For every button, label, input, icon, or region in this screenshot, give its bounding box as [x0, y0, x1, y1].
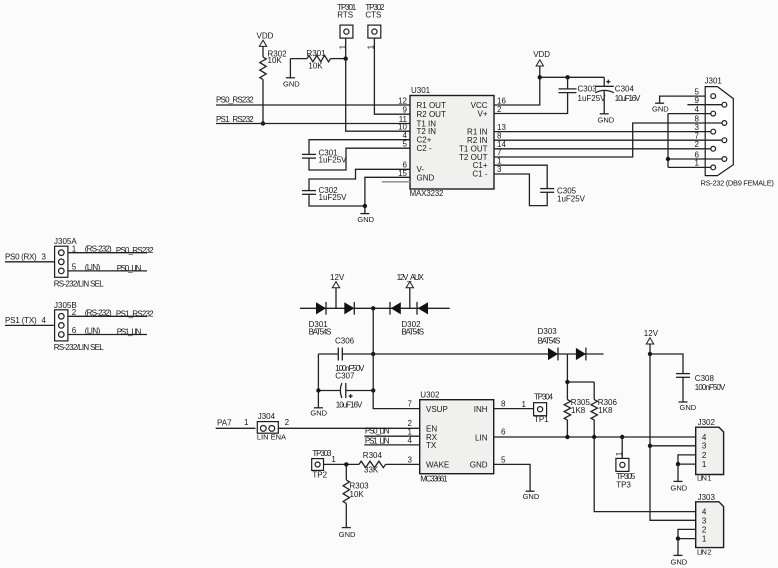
- svg-text:3: 3: [702, 516, 707, 525]
- svg-text:5: 5: [501, 455, 506, 464]
- svg-text:TP304: TP304: [534, 393, 554, 402]
- ground GND (U302): [523, 491, 540, 501]
- resistor R305: [564, 400, 570, 420]
- svg-text:C303: C303: [578, 85, 598, 94]
- svg-text:9: 9: [403, 106, 408, 115]
- svg-text:J304: J304: [258, 412, 276, 421]
- svg-text:C1 -: C1 -: [472, 170, 487, 179]
- resistor R301: [307, 55, 331, 61]
- IC U302 MC33661: [420, 400, 494, 474]
- IC U301 MAX3232: [410, 96, 494, 190]
- svg-text:TX: TX: [426, 441, 437, 450]
- wire PS1_LIN to U302 TX: [364, 444, 419, 446]
- svg-text:PS1_LIN: PS1_LIN: [117, 328, 142, 337]
- ground GND (C308): [679, 402, 697, 412]
- svg-text:(LIN): (LIN): [85, 263, 101, 272]
- svg-text:6: 6: [72, 326, 77, 335]
- svg-text:10K: 10K: [350, 490, 365, 499]
- svg-text:GND: GND: [417, 174, 435, 183]
- J301 pin circle 5: [711, 94, 716, 99]
- J301 pin circle 2: [711, 146, 716, 151]
- junction C303 branch: [565, 75, 569, 79]
- svg-text:1: 1: [72, 244, 77, 253]
- junction C306 row: [371, 352, 375, 356]
- wire J301 pin 1: [668, 166, 711, 168]
- svg-text:1uF25V: 1uF25V: [319, 193, 348, 202]
- wire J301 pin 5 to GND: [660, 96, 706, 103]
- wire C306 row to D303: [373, 353, 603, 355]
- wire VDD to R302: [262, 46, 264, 57]
- capacitor C304 (polarized): [595, 77, 614, 114]
- capacitor C303: [559, 77, 577, 92]
- power 12V_AUX (D302 tap): [397, 273, 425, 308]
- svg-text:(RS-232): (RS-232): [85, 308, 112, 317]
- wire U301 pin 6 (V-) to C302: [309, 169, 410, 190]
- test point TP301: [337, 3, 357, 49]
- wire C305 to U301 pin 3 (C1-): [494, 174, 547, 206]
- svg-text:1: 1: [522, 400, 527, 409]
- junction D301/D302 rail: [371, 306, 375, 310]
- svg-text:D303: D303: [538, 327, 558, 336]
- junction C307 row right: [371, 388, 375, 392]
- svg-text:1uF25V: 1uF25V: [578, 94, 607, 103]
- wire J304 to U302 EN: [278, 427, 419, 429]
- svg-text:3: 3: [408, 455, 413, 464]
- junction J302 pin 1: [676, 462, 680, 466]
- svg-text:4: 4: [408, 436, 413, 445]
- wire U301 pin 14 (T1 OUT) to J301 pin 2: [494, 148, 711, 150]
- junction C302/U301 GND: [363, 204, 367, 208]
- svg-text:2: 2: [285, 418, 290, 427]
- wire R305 to LIN row: [566, 420, 568, 437]
- svg-text:2: 2: [72, 308, 77, 317]
- wire J305B pin 2 (RS-232 select): [68, 315, 147, 317]
- svg-text:GND: GND: [671, 484, 688, 493]
- diode D303 (dual BAT54S): [548, 348, 586, 361]
- svg-text:BAT54S: BAT54S: [538, 336, 561, 345]
- svg-text:PS0_LIN: PS0_LIN: [117, 264, 142, 273]
- svg-text:(RS-232): (RS-232): [85, 245, 112, 254]
- test point TP303: [312, 449, 332, 479]
- svg-text:12: 12: [398, 96, 407, 105]
- svg-text:1: 1: [695, 159, 700, 168]
- svg-text:C304: C304: [615, 85, 635, 94]
- svg-text:12V_AUX: 12V_AUX: [397, 273, 425, 282]
- wire J302 pin 3: [650, 445, 696, 447]
- svg-text:C306: C306: [335, 336, 355, 345]
- svg-text:C307: C307: [335, 371, 355, 380]
- wire PS1 to J305B: [5, 324, 55, 326]
- svg-text:5: 5: [72, 263, 77, 272]
- wire J305A pin 5 (LIN select): [68, 270, 147, 272]
- svg-text:VDD: VDD: [257, 31, 274, 40]
- svg-text:GND: GND: [598, 115, 615, 124]
- svg-text:(LIN): (LIN): [85, 327, 101, 336]
- svg-text:PS1_RS232: PS1_RS232: [216, 115, 254, 124]
- capacitor C305: [540, 189, 554, 193]
- wire C302 to GND junction: [309, 194, 365, 206]
- svg-text:GND: GND: [671, 558, 688, 567]
- connector J304: [257, 412, 286, 442]
- wire TP303 to R304: [324, 463, 360, 465]
- wire U301 pin 1 (C1+) to C305: [494, 165, 547, 188]
- wire J301 pin 9 stub: [687, 104, 722, 106]
- svg-text:LIN: LIN: [257, 433, 269, 442]
- svg-text:PS1 (TX): PS1 (TX): [5, 316, 37, 325]
- junction VDD rail: [538, 75, 542, 79]
- junction C307 left: [316, 388, 320, 392]
- svg-text:6: 6: [501, 428, 506, 437]
- svg-text:MAX3232: MAX3232: [410, 189, 445, 198]
- svg-text:PS1_LIN: PS1_LIN: [365, 437, 390, 446]
- svg-text:8: 8: [501, 400, 506, 409]
- svg-text:9: 9: [695, 96, 700, 105]
- wire U302 LIN to J302 pin 4: [494, 436, 696, 438]
- J301 pin circle 4: [711, 111, 716, 116]
- J301 pin circle 8: [722, 121, 727, 126]
- resistor R304: [359, 461, 386, 467]
- svg-text:U301: U301: [411, 86, 431, 95]
- resistor R306: [591, 400, 597, 420]
- wire R302 to PS1_RS232: [262, 80, 264, 124]
- svg-text:GND: GND: [283, 80, 300, 89]
- svg-text:ENA: ENA: [271, 433, 286, 442]
- svg-text:GND: GND: [652, 104, 669, 113]
- connector J303: [696, 493, 724, 556]
- svg-text:TP3: TP3: [616, 481, 631, 490]
- svg-text:R1 OUT: R1 OUT: [417, 101, 446, 110]
- svg-text:R2 OUT: R2 OUT: [417, 110, 446, 119]
- svg-text:V+: V+: [477, 109, 487, 118]
- svg-text:10K: 10K: [308, 62, 323, 71]
- diode D302 (dual BAT54S reversed): [390, 302, 428, 315]
- J301 pin circle 3: [711, 129, 716, 134]
- svg-text:33K: 33K: [364, 465, 379, 474]
- svg-text:GND: GND: [470, 461, 488, 470]
- power VDD (R302 pull-up): [257, 31, 274, 46]
- junction R301/TP301: [344, 56, 348, 60]
- svg-text:RS-232/LIN SEL: RS-232/LIN SEL: [54, 343, 105, 352]
- svg-text:J302: J302: [698, 418, 716, 427]
- svg-text:7: 7: [408, 400, 413, 409]
- wire U301 pin 7 (T2 OUT) to J301 pin 8: [494, 123, 722, 157]
- resistor R302: [260, 57, 266, 80]
- ground GND (J302): [671, 464, 688, 493]
- svg-text:2: 2: [497, 105, 502, 114]
- capacitor C307 (polarized): [318, 383, 373, 398]
- wire TP301 to U301 pin 10 (T2 IN): [346, 38, 410, 131]
- svg-text:2: 2: [695, 140, 700, 149]
- wire PS0 to J305A: [5, 261, 55, 263]
- svg-text:LIN: LIN: [475, 433, 488, 442]
- junction R305 top: [565, 380, 569, 384]
- wire rail to C306 row: [372, 308, 374, 354]
- capacitor C301: [302, 154, 316, 158]
- wire PS1_RS232 to U301 pin 11: [216, 123, 410, 125]
- ground GND (C304): [598, 114, 615, 125]
- wire GND to R301: [290, 58, 307, 60]
- svg-text:1: 1: [702, 460, 707, 469]
- svg-text:U302: U302: [420, 390, 440, 399]
- wire 12V branch to C308: [650, 354, 683, 374]
- wire R301 to TP301: [331, 58, 346, 60]
- wire PS0_LIN to U302 RX: [364, 435, 419, 437]
- wire U301 pin 4 (C2+) to C301: [309, 140, 410, 155]
- connector J305B: [54, 301, 77, 341]
- wire VDD to U301 pin 16 (VCC): [494, 66, 540, 105]
- ground GND (U301/C302): [357, 206, 374, 224]
- wire C306/C307 left leg: [317, 354, 319, 391]
- svg-text:TP303: TP303: [312, 449, 332, 458]
- svg-text:MC33661: MC33661: [420, 475, 448, 484]
- svg-text:PS0_RS232: PS0_RS232: [216, 95, 254, 104]
- connector J302: [696, 418, 724, 482]
- junction TP305/LIN: [620, 435, 624, 439]
- wire J303 pins 2/1 tie: [678, 529, 696, 538]
- junction 12V/C308: [648, 352, 652, 356]
- junction J302 pin 3 branch: [648, 444, 652, 448]
- wire TP302 to U301 pin 9 (R2 OUT): [374, 38, 410, 114]
- svg-text:5: 5: [403, 140, 408, 149]
- svg-text:PS0_RS232: PS0_RS232: [116, 246, 154, 255]
- svg-text:VDD: VDD: [533, 50, 550, 59]
- wire J301 pins 4/6/1 tie: [667, 114, 669, 168]
- wire C301 to U301 pin 5 (C2-): [309, 148, 410, 170]
- test point TP302: [365, 3, 385, 49]
- wire J305B pin 6 (LIN select): [68, 334, 147, 336]
- svg-text:12V: 12V: [644, 329, 659, 338]
- capacitor C302: [302, 191, 316, 195]
- test point TP305: [616, 458, 636, 489]
- svg-text:1uF25V: 1uF25V: [319, 156, 348, 165]
- svg-text:INH: INH: [474, 405, 488, 414]
- wire LIN to J303 pin 4: [594, 437, 696, 512]
- wire rail to U302 VSUP: [373, 391, 420, 409]
- capacitor C306: [318, 348, 373, 361]
- svg-text:1uF25V: 1uF25V: [557, 195, 586, 204]
- svg-text:GND: GND: [357, 215, 374, 224]
- wire D303 tap to R305/R306: [567, 354, 594, 400]
- svg-text:100nF50V: 100nF50V: [695, 383, 726, 392]
- svg-text:CTS: CTS: [365, 10, 381, 19]
- diode D301 (dual BAT54S): [316, 302, 354, 315]
- svg-text:4: 4: [702, 508, 707, 517]
- ground GND (J301 pin 5): [652, 103, 669, 113]
- svg-text:VSUP: VSUP: [426, 405, 448, 414]
- svg-text:LIN 1: LIN 1: [697, 473, 712, 482]
- svg-text:RS-232/LIN SEL: RS-232/LIN SEL: [54, 279, 105, 288]
- svg-text:10uF16V: 10uF16V: [615, 94, 641, 103]
- wire J305A pin 1 (RS-232 select): [68, 252, 147, 254]
- wire J301 pin 4: [668, 113, 711, 115]
- junction J303 pin 1: [676, 536, 680, 540]
- wire C303 to U301 pin 2 (V+): [494, 93, 568, 114]
- svg-text:4: 4: [695, 105, 700, 114]
- wire J301 pin 6: [668, 158, 722, 160]
- J301 pin circle 7: [722, 138, 727, 143]
- ground GND (R301): [283, 59, 300, 89]
- junction J301 pin 6 tie: [666, 157, 670, 161]
- wire U302 GND to ground: [494, 464, 530, 491]
- svg-text:GND: GND: [680, 403, 697, 412]
- J301 pin circle 1: [711, 165, 716, 170]
- svg-text:TP305: TP305: [616, 472, 636, 481]
- svg-text:RTS: RTS: [337, 10, 353, 19]
- svg-text:TP1: TP1: [534, 415, 549, 424]
- test point TP304: [534, 393, 554, 424]
- power 12V (LIN bus): [644, 329, 659, 354]
- wire R304 to U302 WAKE: [386, 463, 420, 465]
- svg-text:4: 4: [702, 433, 707, 442]
- svg-text:1K8: 1K8: [598, 406, 613, 415]
- svg-text:TP2: TP2: [312, 470, 327, 479]
- svg-text:1: 1: [615, 451, 624, 456]
- wire PS0_RS232 to U301 pin 12: [216, 104, 410, 106]
- svg-text:1K8: 1K8: [571, 406, 586, 415]
- wire PA7 to J304: [216, 427, 256, 429]
- wire U301 pin 8 (R2 IN) to J301 pin 7: [494, 139, 722, 141]
- ground GND (J303): [671, 539, 688, 567]
- junction R306/LIN: [592, 435, 596, 439]
- junction R305/LIN: [565, 435, 569, 439]
- svg-text:WAKE: WAKE: [426, 461, 449, 470]
- svg-text:PS0 (RX): PS0 (RX): [5, 252, 37, 261]
- svg-text:C2 -: C2 -: [417, 144, 432, 153]
- ground GND (R303): [339, 504, 356, 539]
- wire U301 pin 15 (GND) to ground: [365, 177, 410, 206]
- svg-text:PA7: PA7: [217, 418, 232, 427]
- ground GND (C306/C307): [310, 391, 327, 418]
- svg-text:GND: GND: [523, 492, 540, 501]
- svg-text:LIN 2: LIN 2: [697, 547, 712, 556]
- svg-text:1: 1: [702, 535, 707, 544]
- svg-text:12V: 12V: [330, 273, 345, 282]
- junction TP303/R303/R304: [344, 462, 348, 466]
- svg-text:1: 1: [244, 418, 249, 427]
- power VDD (U301 VCC): [533, 50, 550, 66]
- svg-text:10K: 10K: [268, 56, 283, 65]
- svg-text:2: 2: [702, 525, 707, 534]
- artifact line under U301 pin 15: [382, 181, 410, 183]
- svg-text:J303: J303: [698, 493, 716, 502]
- svg-text:R304: R304: [363, 451, 383, 460]
- svg-text:3: 3: [42, 252, 47, 261]
- connector J305A: [54, 237, 77, 277]
- svg-text:2: 2: [702, 451, 707, 460]
- wire R306 to LIN row: [593, 420, 595, 437]
- svg-text:4: 4: [42, 316, 47, 325]
- wire U302 INH to TP304: [494, 408, 534, 410]
- svg-text:10uF16V: 10uF16V: [336, 400, 363, 409]
- svg-text:RS-232 (DB9 FEMALE): RS-232 (DB9 FEMALE): [701, 178, 775, 187]
- svg-text:3: 3: [702, 442, 707, 451]
- wire 12V down to J303 pin 3: [650, 446, 696, 521]
- power 12V (D301 tap): [330, 273, 345, 308]
- junction R302/PS1_RS232: [261, 121, 265, 125]
- wire J302 pins 2/1 tie: [678, 455, 696, 464]
- svg-text:R301: R301: [307, 49, 327, 58]
- wire LIN to TP305: [621, 437, 623, 458]
- svg-text:1: 1: [331, 455, 336, 464]
- wire U301 pin 13 (R1 IN) to J301 pin 3: [494, 131, 711, 133]
- J301 pin circle 9: [722, 102, 727, 107]
- wire VDD rail to C304: [540, 76, 604, 78]
- wire 12V down to J302 pin 3: [649, 354, 651, 446]
- svg-text:GND: GND: [339, 530, 356, 539]
- connector J301 (DB9 female): [705, 77, 734, 176]
- svg-text:5: 5: [695, 87, 700, 96]
- svg-text:3: 3: [497, 165, 502, 174]
- resistor R303: [343, 464, 349, 503]
- svg-text:PS1_RS232: PS1_RS232: [116, 309, 154, 318]
- svg-text:C308: C308: [695, 374, 715, 383]
- wire rail C306 to C307: [372, 354, 374, 391]
- svg-text:GND: GND: [310, 409, 327, 418]
- svg-text:BAT54S: BAT54S: [401, 328, 424, 337]
- svg-text:PS0_LIN: PS0_LIN: [365, 426, 390, 435]
- capacitor C308: [676, 374, 690, 402]
- wire D301/D302 rail: [300, 307, 450, 309]
- J301 pin circle 6: [722, 157, 727, 162]
- svg-text:BAT54S: BAT54S: [309, 328, 332, 337]
- svg-text:J301: J301: [705, 77, 723, 86]
